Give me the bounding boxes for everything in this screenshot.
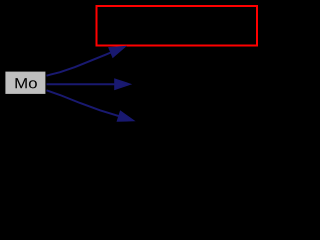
edge Mo to bottom node [47,90,135,121]
edge Mo to red node [47,46,126,75]
edge Mo to middle node [47,79,131,90]
node (red bordered, truncated) [97,6,258,46]
node Mo [5,72,45,94]
